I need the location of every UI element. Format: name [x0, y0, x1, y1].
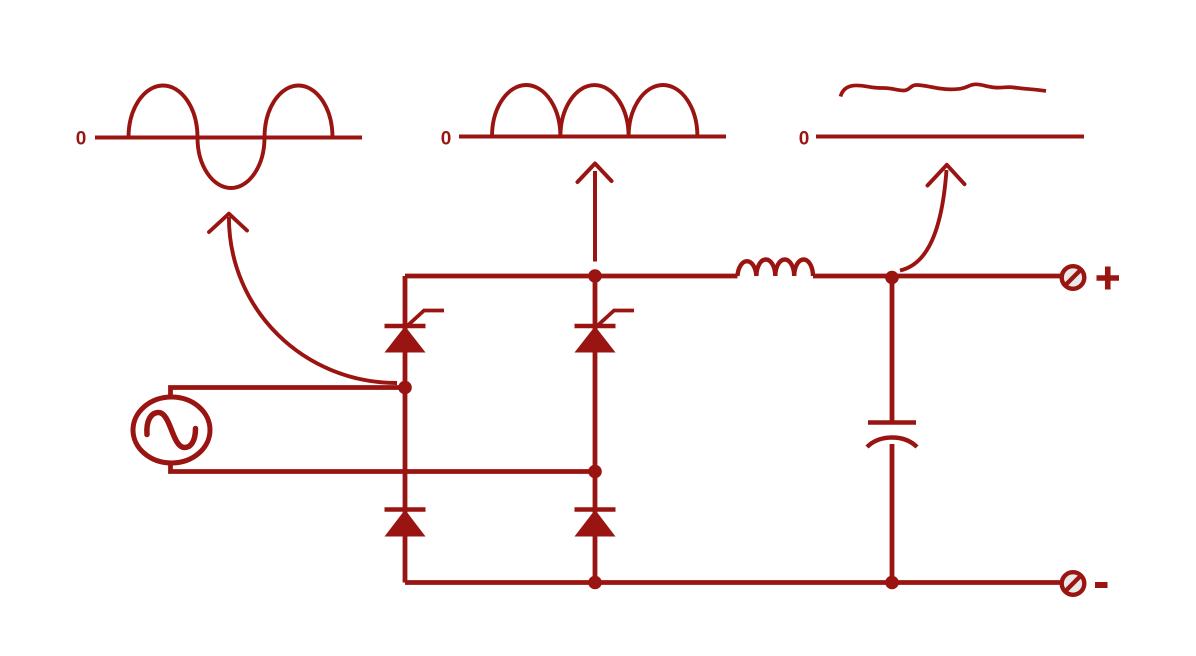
waveform W2 axis line [459, 135, 726, 139]
output terminal negative [1062, 572, 1085, 595]
wire: source bottom terminal to bridge node B [171, 463, 596, 472]
svg-text:0: 0 [76, 129, 87, 150]
wire: capacitor bottom lead [890, 444, 895, 583]
diode D1 [385, 510, 426, 537]
arrow A1 head [209, 214, 247, 232]
junction: capacitor at top rail [885, 271, 899, 285]
waveform W1 sine trace [129, 86, 333, 188]
waveform W3 axis line [816, 135, 1084, 139]
wire: bridge left leg [403, 276, 408, 583]
arrow A3 head [928, 165, 965, 186]
wire: top rail right segment [813, 274, 1062, 279]
junction node B (right leg, source bottom) [588, 465, 602, 479]
wire: source top terminal to bridge node A [171, 388, 406, 398]
inductor L1 [738, 259, 814, 276]
wire: bridge right leg [593, 276, 598, 583]
arrow A2 shaft from top rail toward W2 [593, 171, 597, 262]
junction: right leg at bottom rail [588, 576, 602, 590]
label - [1095, 582, 1108, 588]
capacitor C1 [867, 423, 917, 448]
AC source V1 circle [133, 397, 210, 463]
diode D2 [575, 510, 616, 537]
waveform W2 rectified trace [492, 85, 697, 137]
junction: capacitor at bottom rail [885, 576, 899, 590]
junction: right leg at top rail [588, 269, 602, 283]
wire: capacitor top lead [890, 278, 895, 423]
AC source V1 sine symbol [147, 413, 196, 448]
svg-text:0: 0 [441, 129, 452, 150]
output terminal positive [1062, 266, 1085, 289]
thyristor SCR2 [575, 311, 635, 353]
svg-text:0: 0 [799, 129, 810, 150]
waveform W1 axis line [95, 136, 362, 140]
junction node A (left leg, source top) [398, 381, 412, 395]
wire: bottom rail [405, 580, 1062, 585]
label + [1097, 267, 1120, 290]
arrow A3 shaft from filter output toward W3 [900, 170, 947, 271]
wire: top rail left segment [405, 274, 738, 279]
arrow A1 shaft from node A toward W1 [229, 217, 397, 383]
thyristor SCR1 [385, 311, 445, 353]
arrow A2 head [578, 164, 612, 183]
waveform W3 dc ripple trace [841, 84, 1047, 96]
